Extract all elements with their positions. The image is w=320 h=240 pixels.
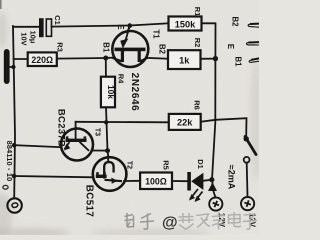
svg-text:884110 - 10: 884110 - 10: [5, 141, 14, 182]
node rail/input blob junction: [11, 65, 15, 69]
wire T3 base horizontal to R6: [76, 121, 169, 124]
wire B1 junction into T1: [106, 57, 112, 59]
wire 220R right to B1 junction: [57, 57, 106, 60]
speck artifact: [3, 185, 8, 189]
svg-text:1k: 1k: [179, 55, 190, 65]
svg-text:T3: T3: [94, 128, 101, 136]
wire switch to +12V terminal 2: [246, 163, 249, 197]
svg-text:T1: T1: [152, 29, 161, 39]
wire T3 base lead down: [75, 122, 77, 139]
svg-text:100Ω: 100Ω: [145, 177, 167, 187]
resistor R5 100 ohm: [140, 173, 172, 190]
wire T2 emitter to R5: [124, 180, 140, 182]
node R4/T3-base/R6 junction: [104, 120, 108, 124]
svg-text:10k: 10k: [106, 85, 116, 99]
svg-text:R4: R4: [117, 74, 126, 84]
resistor R6 22k: [169, 114, 201, 130]
diode D1 LED: [187, 172, 203, 202]
connector E probe: [246, 42, 259, 45]
svg-text:R5: R5: [162, 160, 171, 170]
wire T1 B2 to R2: [147, 57, 168, 60]
wire R1 right to vertical supply: [202, 23, 216, 58]
node rail/T2 base junction: [12, 174, 17, 179]
svg-text:220Ω: 220Ω: [31, 55, 53, 65]
svg-text:B1: B1: [101, 42, 110, 53]
node supply junction at R2: [213, 56, 218, 61]
wire R6 right to switch corner: [201, 118, 247, 136]
transistor T1 UJT 2N2646: [112, 27, 148, 67]
svg-text:@: @: [162, 215, 178, 232]
switch S1: [244, 136, 257, 163]
capacitor C1: [39, 18, 52, 37]
current arrow 2mA: [208, 182, 217, 191]
connector B1 probe: [249, 58, 259, 62]
wire LED junction through arrow to +12V terminal 1: [212, 180, 216, 198]
transistor T3 BC237B: [61, 129, 93, 161]
node B1 junction: [103, 56, 108, 61]
svg-text:R2: R2: [193, 38, 202, 48]
svg-text:22k: 22k: [177, 118, 193, 128]
node LED/arrow junction: [209, 177, 214, 182]
wire vertical supply line down to LED junction: [212, 59, 215, 180]
svg-text:B2: B2: [158, 44, 167, 55]
terminal 0V: [7, 198, 21, 212]
svg-text:150k: 150k: [175, 19, 196, 29]
svg-text:E: E: [226, 44, 235, 49]
wire rail to T2 base: [14, 176, 93, 177]
wire B1 junction down to R4: [105, 58, 107, 77]
terminal +12V right: [241, 197, 254, 210]
svg-text:≈2mA: ≈2mA: [227, 165, 237, 190]
resistor R4 10k: [101, 77, 116, 108]
terminal +12V left: [209, 197, 222, 210]
svg-text:B1: B1: [234, 57, 243, 68]
svg-text:R1: R1: [193, 7, 202, 17]
svg-text:D1: D1: [196, 159, 205, 169]
wire rail to T3 emitter: [14, 145, 61, 147]
transistor T2 BC517: [93, 157, 127, 191]
wire top from rail corner to C1: [13, 26, 39, 28]
wire T3 collector to junction: [92, 150, 108, 152]
node rail/T3 emitter junction: [12, 143, 17, 148]
svg-text:B2: B2: [231, 17, 240, 28]
svg-text:BC517: BC517: [84, 185, 95, 218]
wire 220R left to rail: [14, 58, 28, 60]
input terminal blob: [4, 49, 14, 84]
wire R2 right to supply junction: [201, 58, 216, 60]
wire T1 emitter top lead: [127, 26, 130, 33]
wire junction down to T2 collector: [107, 151, 110, 157]
watermark zhihu: [125, 213, 155, 229]
svg-text:R6: R6: [193, 100, 202, 110]
svg-text:T2: T2: [126, 161, 133, 169]
svg-text:BC237B: BC237B: [56, 109, 67, 147]
connector B2 probe: [248, 24, 259, 28]
paper background: [0, 0, 259, 235]
resistor R1 150k: [169, 17, 202, 31]
svg-text:10V: 10V: [20, 32, 29, 45]
wire R4 bottom down to T3 collector junction: [106, 107, 108, 150]
node T3 collector junction: [105, 148, 110, 153]
wire left rail vertical: [13, 26, 15, 198]
wire top rail C1 to R1: [52, 23, 169, 26]
resistor R3 220 ohm: [28, 52, 57, 66]
wire LED to junction: [204, 180, 212, 181]
node E top junction: [128, 23, 133, 28]
svg-text:C1: C1: [53, 15, 62, 25]
svg-text:E: E: [116, 24, 125, 29]
resistor R2 1k: [168, 50, 201, 69]
svg-text:2N2646: 2N2646: [129, 73, 140, 112]
wire R5 to LED: [172, 180, 187, 182]
svg-text:10μ: 10μ: [29, 31, 38, 44]
svg-text:R3: R3: [56, 42, 65, 52]
